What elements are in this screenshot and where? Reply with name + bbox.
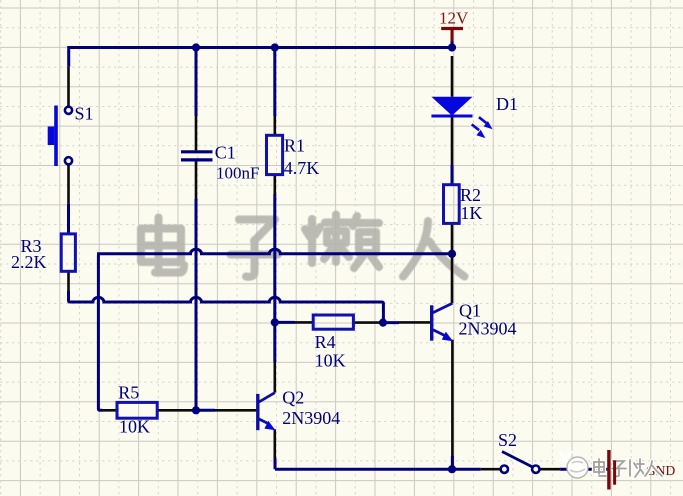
svg-text:D1: D1 — [496, 94, 518, 114]
svg-text:S1: S1 — [75, 103, 94, 123]
svg-text:2N3904: 2N3904 — [459, 319, 517, 339]
svg-text:10K: 10K — [315, 351, 346, 371]
svg-text:R1: R1 — [284, 136, 305, 156]
svg-text:100nF: 100nF — [216, 164, 259, 183]
svg-text:2.2K: 2.2K — [11, 252, 47, 272]
svg-text:R4: R4 — [315, 332, 336, 352]
svg-text:R5: R5 — [118, 383, 139, 403]
svg-text:2N3904: 2N3904 — [282, 408, 340, 428]
svg-text:4.7K: 4.7K — [284, 158, 320, 178]
svg-text:Q2: Q2 — [282, 387, 304, 407]
svg-text:10K: 10K — [119, 416, 150, 436]
svg-text:C1: C1 — [215, 143, 236, 163]
svg-text:S2: S2 — [498, 430, 517, 450]
svg-text:1K: 1K — [460, 203, 482, 223]
svg-text:Q1: Q1 — [459, 300, 481, 320]
svg-text:12V: 12V — [439, 8, 469, 27]
